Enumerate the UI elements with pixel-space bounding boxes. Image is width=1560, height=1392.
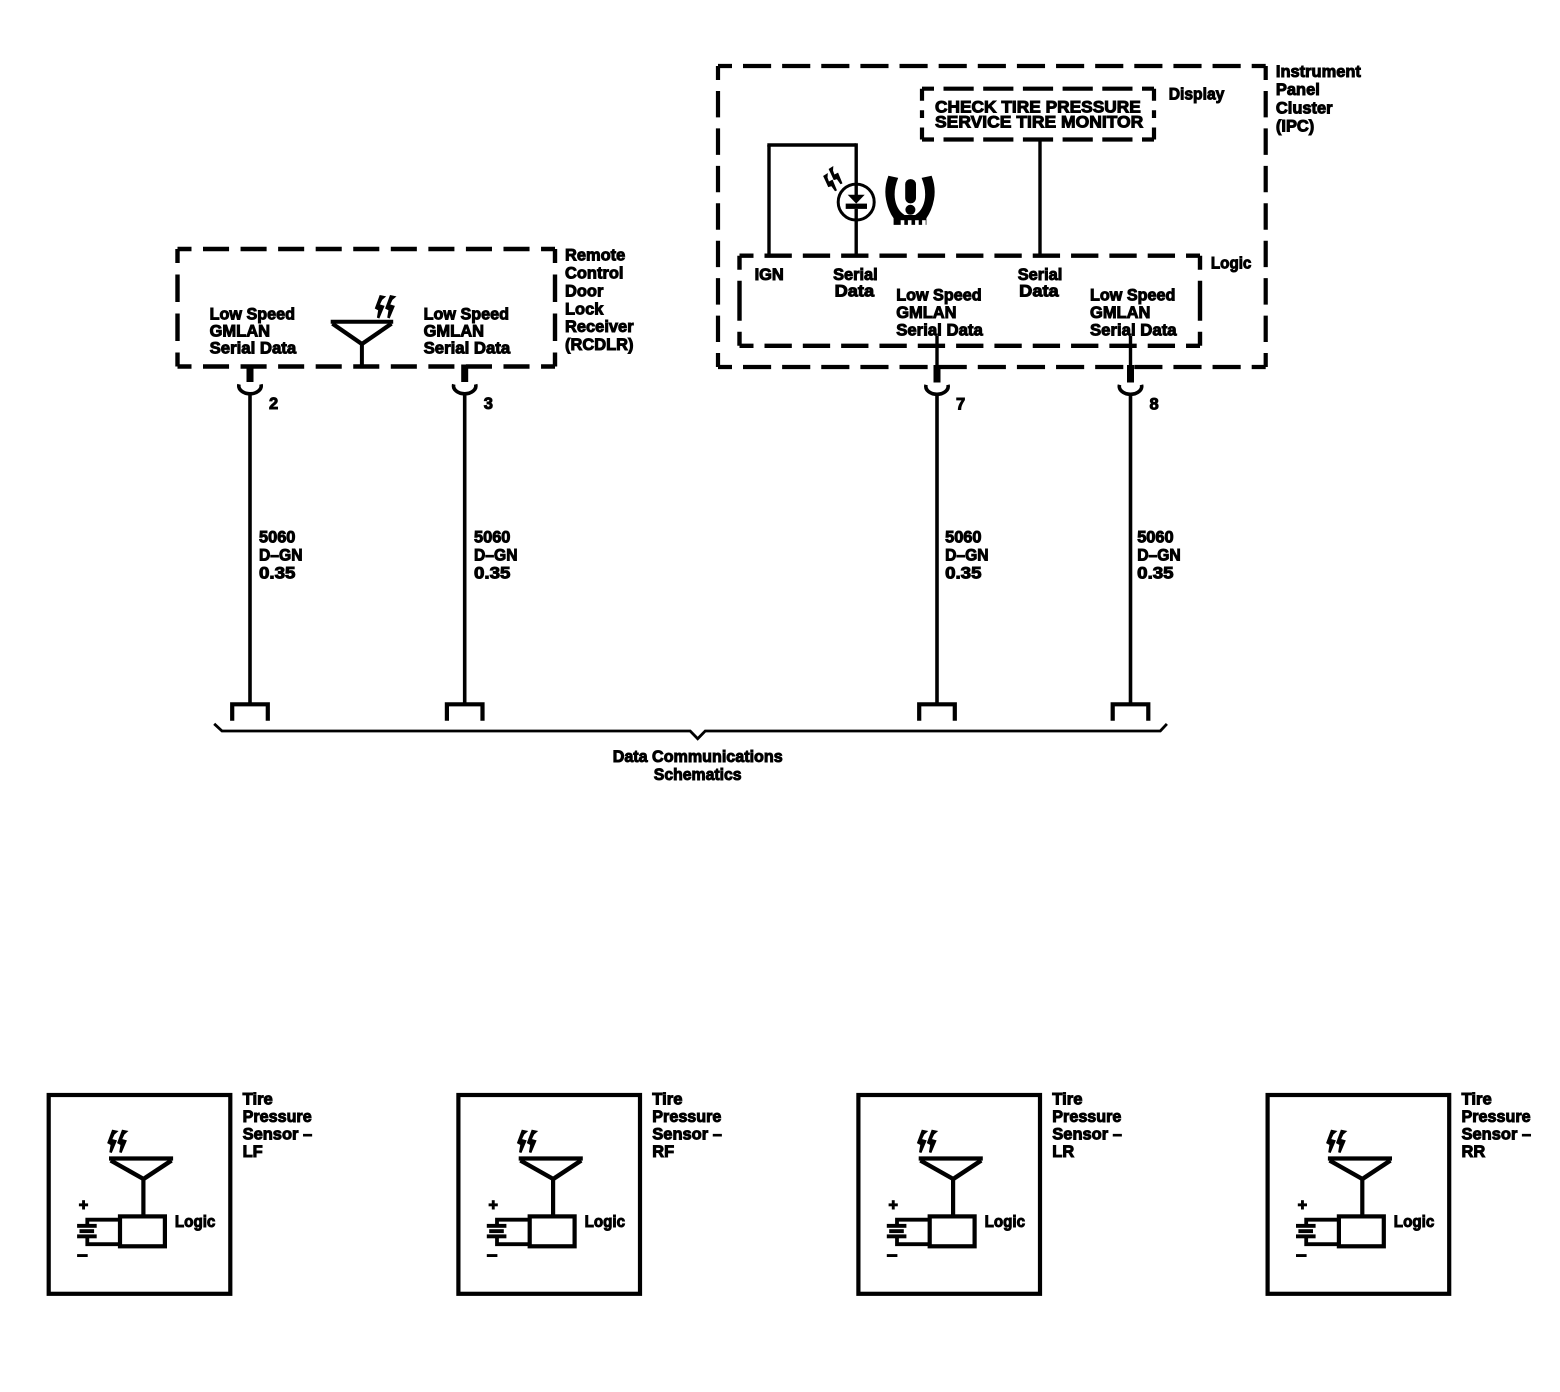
svg-text:GMLAN: GMLAN [424,321,484,340]
terminator (wire 7 to data bus) [919,704,955,721]
label Tire Pressure Sensor - RF [652,1089,722,1161]
svg-text:Tire: Tire [652,1089,682,1108]
svg-text:Pressure: Pressure [243,1107,312,1126]
svg-text:8: 8 [1150,395,1159,414]
battery (LF sensor) [77,1220,120,1245]
wire lamp to logic (Serial Data) [855,220,858,256]
connector pin 3 (RCDLR) [454,365,476,394]
svg-text:0.35: 0.35 [259,564,295,583]
battery minus sign (RF) [487,1254,498,1257]
svg-text:Sensor –: Sensor – [1462,1124,1532,1143]
svg-text:GMLAN: GMLAN [1090,303,1150,322]
svg-text:Data: Data [1019,282,1059,301]
battery plus sign (LR) [889,1200,898,1209]
label Tire Pressure Sensor - LF [243,1089,313,1161]
Display dashed box (IPC) [922,89,1154,140]
antenna (LR sensor) [919,1159,983,1217]
svg-text:Tire: Tire [243,1089,273,1108]
svg-text:LF: LF [243,1142,263,1161]
terminator (wire 3 to data bus) [447,704,483,721]
svg-text:D–GN: D–GN [474,546,518,565]
tire pressure sensor RR box [1268,1095,1450,1294]
wire label 5060 D-GN 0.35 (wire 7) [945,528,989,583]
label Serial Data (display) [1018,265,1063,301]
svg-text:Logic: Logic [1211,254,1252,273]
tire pressure sensor RF box [458,1095,640,1294]
svg-text:0.35: 0.35 [474,564,510,583]
svg-text:2: 2 [269,394,278,413]
svg-text:Low Speed: Low Speed [1090,286,1175,305]
brace Data Communications Schematics [214,724,1167,739]
Logic dashed box (IPC) [740,256,1201,346]
battery minus sign (RR) [1296,1254,1307,1257]
svg-text:D–GN: D–GN [945,546,989,565]
battery plus sign (RF) [489,1200,498,1209]
svg-text:Logic: Logic [175,1212,216,1231]
battery (RR sensor) [1296,1220,1339,1245]
svg-text:Logic: Logic [1394,1212,1435,1231]
terminator (wire 2 to data bus) [232,704,268,721]
svg-text:Sensor –: Sensor – [1052,1124,1122,1143]
label Low Speed GMLAN Serial Data (RCDLR left) [210,304,297,357]
svg-text:Tire: Tire [1052,1089,1082,1108]
svg-text:3: 3 [484,394,493,413]
svg-text:GMLAN: GMLAN [896,303,956,322]
wire 5060 D-GN from pin 2 [248,394,252,704]
svg-text:(RCDLR): (RCDLR) [565,335,634,354]
svg-text:IGN: IGN [755,265,784,284]
svg-text:Data Communications: Data Communications [613,747,783,766]
antenna (RR sensor) [1328,1159,1392,1217]
RF waves (RR sensor antenna) [1327,1130,1346,1152]
tire pressure sensor LR box [858,1095,1040,1294]
svg-text:0.35: 0.35 [1137,564,1173,583]
label Instrument Panel Cluster (IPC) [1276,62,1361,136]
wire label 5060 D-GN 0.35 (wire 2) [259,528,303,583]
wire pin7 stub inside IPC [935,336,938,366]
svg-text:SERVICE TIRE MONITOR: SERVICE TIRE MONITOR [935,113,1143,132]
svg-text:Logic: Logic [585,1212,626,1231]
label Low Speed GMLAN Serial Data (IPC pin 7) [896,286,983,340]
label Tire Pressure Sensor - LR [1052,1089,1122,1161]
indicator lamp LED (IPC) [838,184,874,220]
svg-text:LR: LR [1052,1142,1074,1161]
svg-text:Serial Data: Serial Data [1090,321,1177,340]
svg-text:Serial Data: Serial Data [210,339,297,358]
wire 5060 D-GN from pin 3 [463,394,467,704]
label Data Communications Schematics [613,747,783,784]
svg-text:Tire: Tire [1462,1089,1492,1108]
antenna (RF sensor) [519,1159,583,1217]
svg-text:Display: Display [1169,85,1225,104]
svg-text:Cluster: Cluster [1276,98,1333,117]
svg-text:Data: Data [835,282,875,301]
RCDLR dashed box (Remote Control Door Lock Receiver) [178,249,556,367]
wire label 5060 D-GN 0.35 (wire 8) [1137,528,1181,583]
RF waves (LR sensor antenna) [918,1130,937,1152]
svg-text:Pressure: Pressure [1052,1107,1121,1126]
label Tire Pressure Sensor - RR [1462,1089,1532,1161]
RF waves (RF sensor antenna) [518,1130,537,1152]
RF waves (RCDLR antenna) [376,296,396,318]
wire Serial Data from display to logic [1038,142,1041,256]
wire horizontal IGN to lamp [767,143,856,146]
svg-text:RF: RF [652,1142,674,1161]
label Serial Data (lamp) [833,265,878,301]
connector pin 2 (RCDLR) [239,365,261,394]
svg-text:Instrument: Instrument [1276,62,1361,81]
terminator (wire 8 to data bus) [1113,704,1149,721]
label Low Speed GMLAN Serial Data (IPC pin 8) [1090,286,1177,340]
svg-text:GMLAN: GMLAN [210,321,270,340]
svg-text:0.35: 0.35 [945,564,981,583]
svg-text:Lock: Lock [565,299,604,318]
svg-text:(IPC): (IPC) [1276,117,1314,136]
label CHECK TIRE PRESSURE / SERVICE TIRE MONITOR [935,98,1143,132]
svg-text:Remote: Remote [565,245,625,264]
svg-text:Door: Door [565,281,604,300]
label Low Speed GMLAN Serial Data (RCDLR right) [424,304,511,357]
svg-text:Control: Control [565,263,624,282]
battery (LR sensor) [887,1220,930,1245]
TPMS warning icon (tire with exclamation) [885,176,934,226]
antenna (RCDLR) [331,322,394,369]
battery minus sign (LF) [77,1254,88,1257]
svg-text:7: 7 [956,395,965,414]
label Remote Control Door Lock Receiver (RCDLR) [565,245,634,354]
IPC dashed box (Instrument Panel Cluster) [718,66,1266,367]
svg-text:Pressure: Pressure [1462,1107,1531,1126]
svg-text:D–GN: D–GN [259,546,303,565]
svg-text:Serial Data: Serial Data [424,339,511,358]
svg-text:Sensor –: Sensor – [243,1124,313,1143]
svg-text:D–GN: D–GN [1137,546,1181,565]
battery plus sign (RR) [1298,1200,1307,1209]
RF waves (LF sensor antenna) [108,1130,127,1152]
svg-text:Low Speed: Low Speed [896,286,981,305]
svg-text:5060: 5060 [945,528,981,547]
connector pin 8 (IPC) [1119,365,1141,394]
svg-text:RR: RR [1462,1142,1486,1161]
svg-text:Serial Data: Serial Data [896,321,983,340]
svg-text:Receiver: Receiver [565,317,634,336]
connector pin 7 (IPC) [926,365,948,394]
antenna (LF sensor) [109,1159,173,1217]
svg-text:Sensor –: Sensor – [652,1124,722,1143]
wire label 5060 D-GN 0.35 (wire 3) [474,528,518,583]
battery minus sign (LR) [887,1254,898,1257]
svg-text:Pressure: Pressure [652,1107,721,1126]
logic block (LF sensor) [120,1216,165,1246]
logic block (RF sensor) [530,1216,575,1246]
svg-text:5060: 5060 [1137,528,1173,547]
wire pin8 stub inside IPC [1129,336,1132,366]
svg-text:5060: 5060 [259,528,295,547]
wire 5060 D-GN from pin 7 [935,394,939,704]
tire pressure sensor LF box [49,1095,231,1294]
wire 5060 D-GN from pin 8 [1129,394,1133,704]
svg-text:Panel: Panel [1276,80,1320,99]
svg-text:5060: 5060 [474,528,510,547]
wire IGN up from logic [767,145,770,256]
logic block (LR sensor) [930,1216,975,1246]
light emission arrows (LED) [821,166,845,192]
logic block (RR sensor) [1339,1216,1384,1246]
wire lamp top [855,143,858,184]
svg-text:Logic: Logic [985,1212,1026,1231]
svg-text:Schematics: Schematics [654,765,742,784]
battery plus sign (LF) [79,1200,88,1209]
battery (RF sensor) [487,1220,530,1245]
